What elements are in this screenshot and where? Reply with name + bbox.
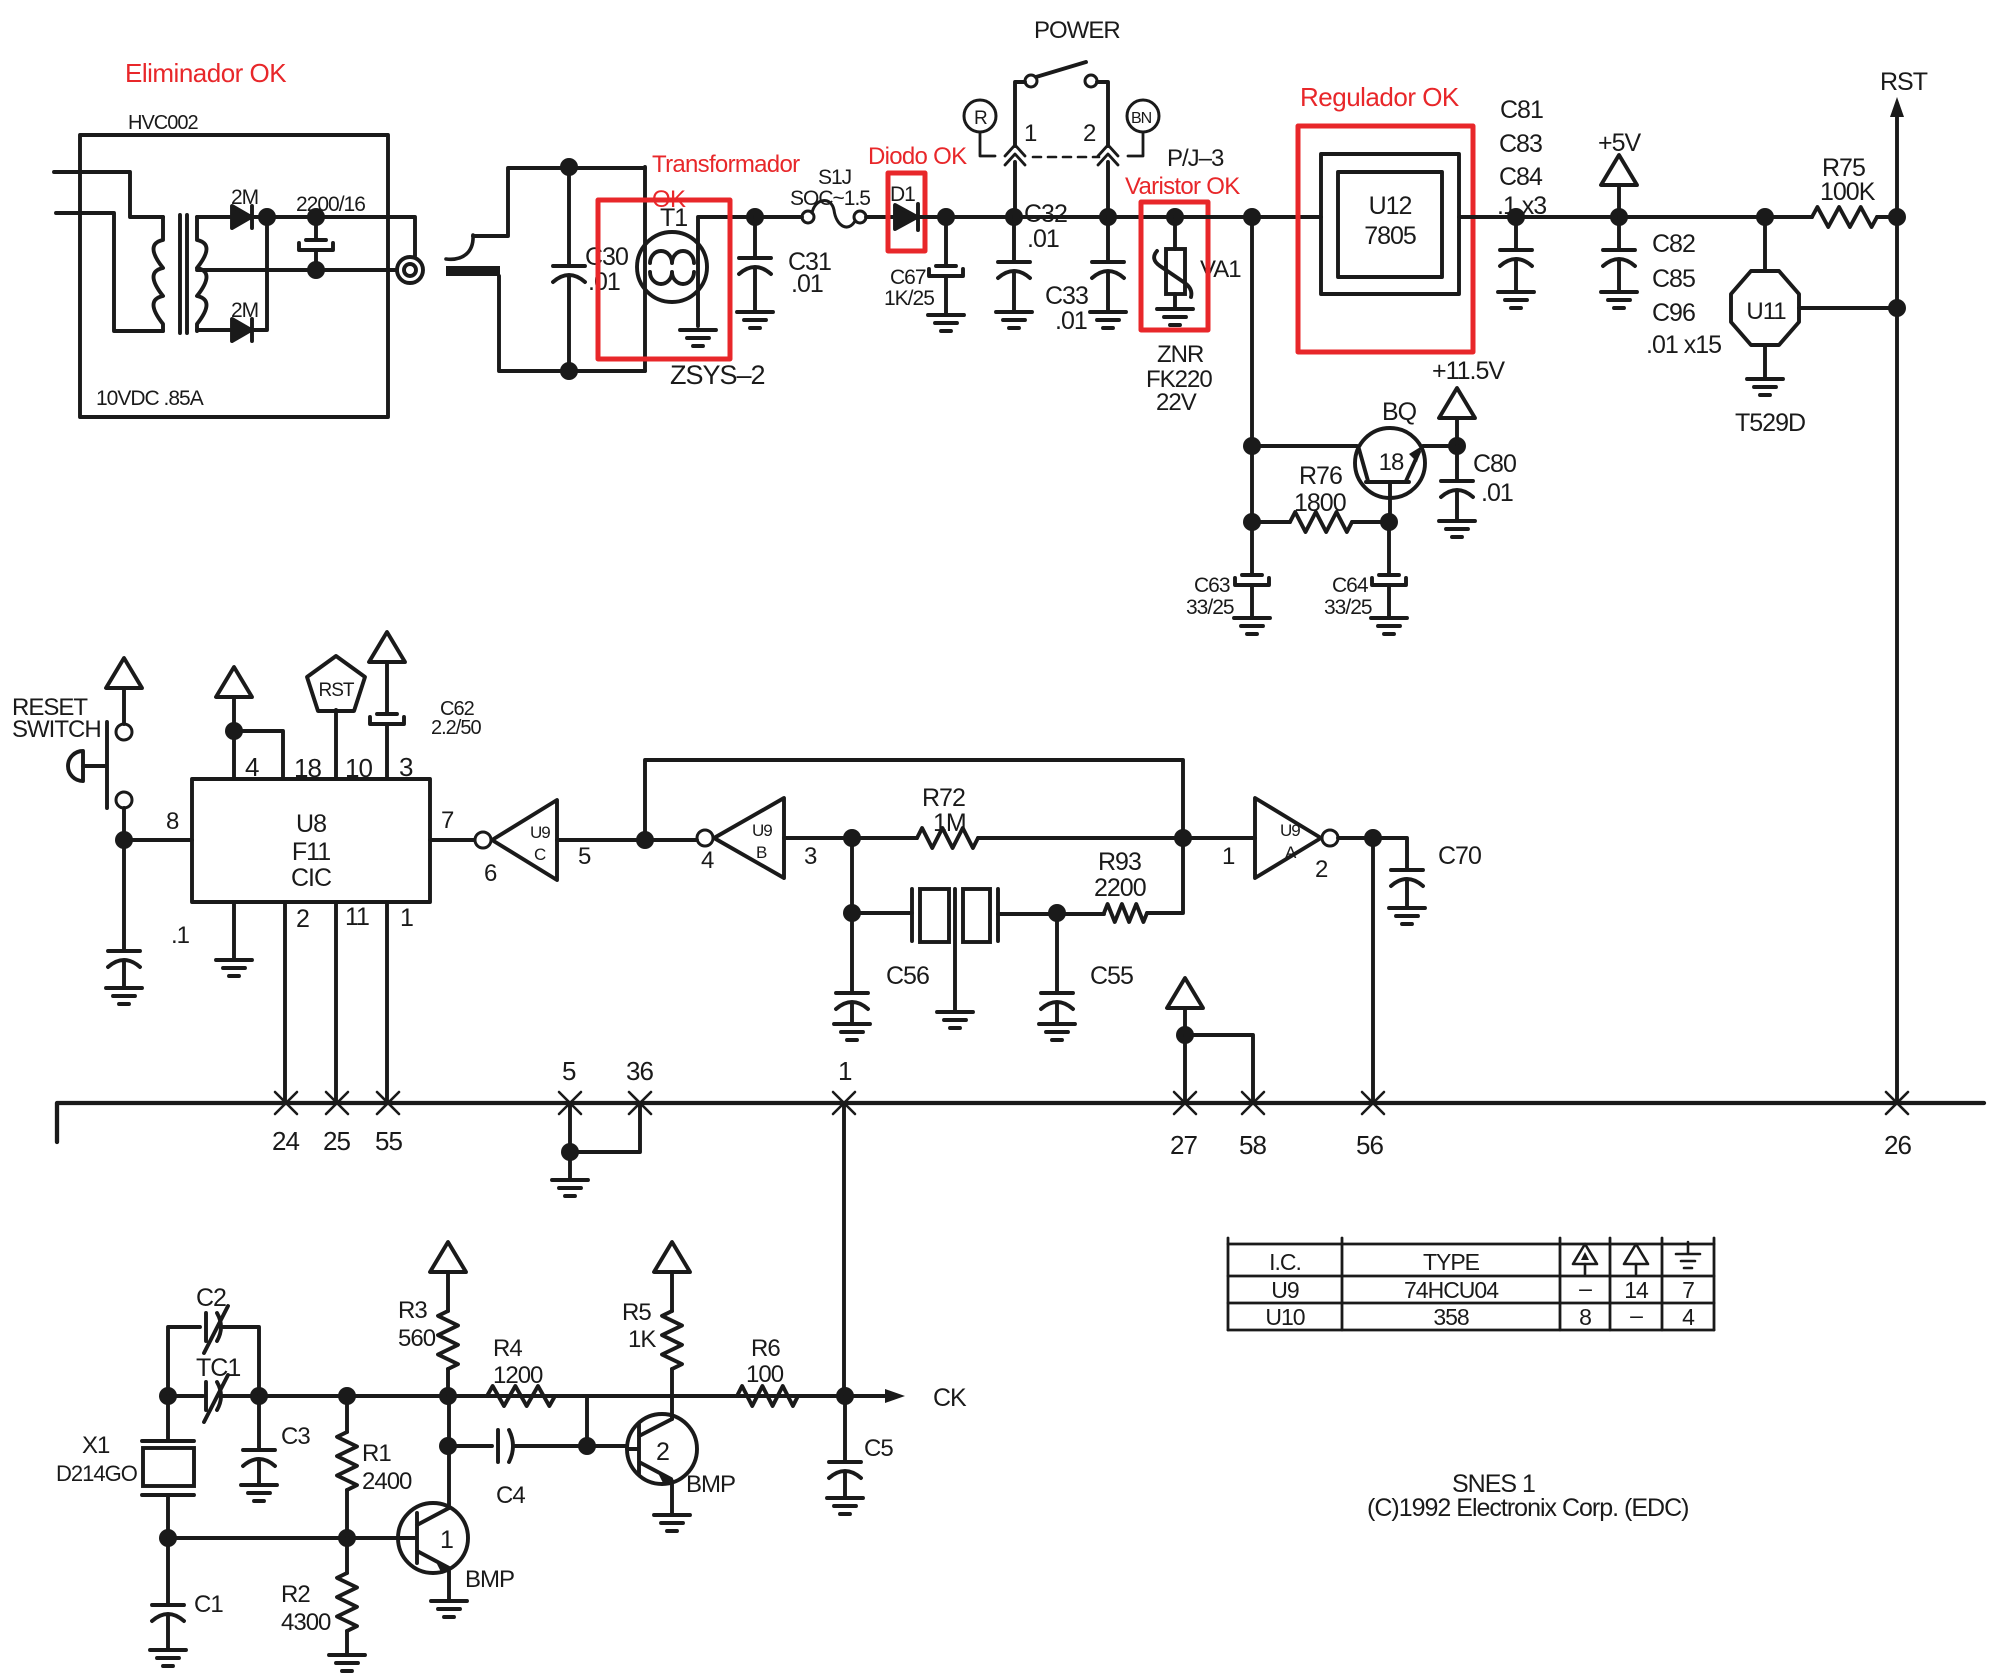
transformer T1 [637,232,707,302]
svg-text:C85: C85 [1652,265,1695,293]
capacitor C5 [829,1396,861,1498]
table header +5V symbol [1624,1244,1648,1274]
bus pin 55 mark [377,1092,399,1114]
svg-text:24: 24 [272,1126,299,1156]
wire U8 pin7 [430,838,474,842]
label C80 [1473,450,1516,478]
transistor Q2 [627,1396,697,1515]
label ZNR [1157,341,1204,368]
label pin 7 [441,807,454,834]
junction +5V [1610,208,1628,226]
label SWITCH [12,716,101,743]
svg-text:1: 1 [440,1526,453,1554]
bus pin 36 mark [629,1092,651,1114]
svg-text:OK: OK [652,186,686,213]
junction R2 top [338,1529,356,1547]
junction X1 bottom [159,1529,177,1547]
svg-text:8: 8 [166,808,179,835]
wire reset to U8 pin8 [124,808,192,840]
capacitor C67 [929,217,963,315]
svg-text:1: 1 [1024,120,1037,147]
resistor R6 [672,1386,845,1406]
wire pin4 [232,731,236,779]
svg-text:ZNR: ZNR [1157,341,1204,368]
svg-text:SWITCH: SWITCH [12,716,101,743]
label P/J-3 [1167,145,1224,172]
svg-text:U12: U12 [1369,192,1412,220]
svg-text:560: 560 [398,1325,436,1352]
ground C31 [737,312,773,328]
ground C64 [1371,618,1407,634]
switch lever [1036,62,1086,77]
bus pin 27 mark [1174,1092,1196,1114]
wire U12 out [1459,215,1619,219]
diode 2M lower [232,319,252,341]
variable capacitor C2 [168,1306,259,1396]
capacitor C82/C85/C96 [1603,217,1635,292]
label pin 4 U9B [701,847,714,874]
wire T1 primary vertical [643,167,647,371]
ground T1 [680,330,716,346]
label 27 [1170,1130,1197,1160]
label 1200 [493,1362,543,1389]
capacitor .1 at reset [108,840,140,988]
svg-text:.01: .01 [1481,479,1513,507]
table header TYPE [1423,1249,1480,1275]
red annotation "Eliminador OK" [125,58,287,88]
junction feedback left [636,831,654,849]
svg-text:358: 358 [1433,1304,1469,1330]
label 2400 [362,1468,412,1495]
label C2 [196,1284,226,1312]
resistor R72 [917,828,978,848]
inverter U9B [697,798,784,878]
svg-text:2: 2 [1315,856,1328,883]
junction crystal left [843,829,861,847]
bus pin 58 mark [1242,1092,1264,1114]
ground C70 [1389,908,1425,924]
svg-text:BN: BN [1131,110,1152,127]
wire fuse to D1 [866,215,895,219]
ground bus pins 5/36 [552,1180,588,1196]
svg-text:10VDC .85A: 10VDC .85A [96,387,204,410]
junction T1 out / C31 [746,208,764,226]
svg-text:C64: C64 [1332,574,1369,597]
wire pin2 to bus [283,902,287,1103]
label 100 [746,1361,784,1388]
wire R72 to U9A [978,836,1255,840]
wire +5V to R75 [1619,215,1812,219]
junction BQ branch [1243,208,1261,226]
svg-text:Diodo OK: Diodo OK [868,143,967,170]
capacitor C30 [553,167,585,371]
label C64 [1332,574,1369,597]
svg-text:.01 x15: .01 x15 [1646,331,1721,359]
svg-text:C67: C67 [890,266,926,289]
junction osc C [338,1387,356,1405]
junction C55 [1048,904,1066,922]
wire BQ right lead [1423,444,1457,448]
svg-text:10: 10 [345,753,372,783]
capacitor C80 [1441,446,1473,521]
bus pin 56 mark [1362,1092,1384,1114]
svg-text:56: 56 [1356,1130,1383,1160]
svg-text:C81: C81 [1500,96,1543,124]
wire C33 to VA1 [1108,215,1175,219]
table header GND symbol [1676,1242,1700,1268]
svg-text:A: A [1285,843,1297,862]
wire lower diode to junction [251,217,267,330]
wire U9B out to R72 [784,836,917,840]
label +11.5V [1432,357,1505,385]
wire secondary top lead [197,215,232,219]
svg-text:C70: C70 [1438,842,1481,870]
svg-text:I.C.: I.C. [1269,1249,1301,1275]
label X1 [82,1432,110,1459]
svg-text:C32: C32 [1024,200,1067,228]
svg-text:U8: U8 [296,810,326,838]
svg-text:R6: R6 [751,1335,780,1362]
svg-text:B: B [756,843,767,862]
svg-text:R93: R93 [1098,848,1141,876]
junction U9A out [1364,829,1382,847]
capacitor C81/C83/C84 [1500,217,1532,292]
svg-text:C83: C83 [1499,130,1542,158]
svg-text:U9: U9 [752,821,772,840]
label pin 1 bottom [400,904,413,932]
label pin 11 [345,903,369,931]
svg-text:C96: C96 [1652,299,1695,327]
svg-text:C63: C63 [1194,574,1230,597]
svg-text:.01: .01 [588,268,620,296]
svg-text:2M: 2M [231,186,258,209]
wire BQ left lead [1252,444,1357,448]
label 2M lower [231,299,258,322]
svg-text:D214GO: D214GO [56,1461,138,1486]
label 7805 [1364,222,1416,250]
label C30 [585,243,628,271]
svg-text:R: R [974,108,987,129]
label pin 2 [296,905,309,933]
label +5V [1598,129,1642,157]
svg-text:11: 11 [345,903,369,931]
label 2200 [1094,874,1146,902]
label C62 value 2.2/50 [431,717,481,739]
label 36 [626,1056,653,1086]
ground U8 [216,960,252,976]
junction C30 bottom [560,362,578,380]
svg-text:+5V: +5V [1598,129,1642,157]
capacitor C55 [1041,913,1073,1024]
table header +11.5V symbol [1573,1244,1597,1274]
svg-text:.1: .1 [171,922,190,949]
svg-text:C56: C56 [886,962,929,990]
red box Transformador [598,200,730,359]
wire U8 gnd pin [232,902,236,960]
svg-text:BMP: BMP [686,1471,735,1498]
reset switch contact top [116,724,132,740]
DC jack [397,257,423,283]
svg-text:2M: 2M [231,299,258,322]
capacitor C32 [998,217,1030,312]
svg-text:22V: 22V [1156,389,1197,416]
ground C33 [1090,312,1126,328]
svg-text:4300: 4300 [281,1609,331,1636]
wire osc main rail [168,1394,845,1398]
junction RST mid [1888,299,1906,317]
svg-text:.01: .01 [791,270,823,298]
svg-text:7805: 7805 [1364,222,1416,250]
ground C5 [827,1498,863,1514]
svg-text:HVC002: HVC002 [128,112,198,134]
label ZSYS-2 [670,360,765,390]
resistor R1 [337,1396,357,1538]
inverter U9C [475,800,557,880]
label 2M upper [231,186,258,209]
label C56 [886,962,929,990]
label FK220 [1146,366,1212,393]
wire to crystal [852,911,912,915]
ground resonator center [937,1012,973,1028]
svg-text:–: – [1630,1302,1643,1328]
svg-text:1: 1 [838,1056,852,1086]
label U8 [296,810,326,838]
label R75 [1822,154,1865,182]
junction C30 top [560,158,578,176]
label C81 [1500,96,1543,124]
svg-text:26: 26 [1884,1130,1911,1160]
capacitor C1 [152,1538,184,1650]
wire Q2 base [587,1444,627,1448]
ground VA1 [1157,309,1193,325]
wire crystal to C55 node [998,912,1104,916]
regulator U12 outer box [1321,154,1459,294]
svg-text:1M: 1M [933,809,966,837]
junction Q2 base [578,1437,596,1455]
power symbol pin27 [1167,978,1203,1035]
wire pin27 to bus [1183,1035,1187,1103]
label RESET [12,694,88,721]
power symbol R5 [654,1242,690,1272]
wire VA1 branch down to BQ [1250,217,1254,522]
ground U11 [1747,379,1783,395]
label C63 value 33/25 [1186,596,1234,619]
svg-text:C: C [534,845,546,864]
svg-text:2: 2 [656,1438,669,1466]
resistor R2 [337,1538,357,1655]
label 26 [1884,1130,1911,1160]
ground C1 [150,1650,186,1666]
label BMP Q2 [686,1471,735,1498]
wire R76 right [1352,520,1389,524]
svg-text:3: 3 [399,752,413,782]
wire D1 to C67 junction [917,215,1014,219]
label C32 [1024,200,1067,228]
label T1 [660,204,687,232]
svg-text:BMP: BMP [465,1566,514,1593]
resistor R93 [1104,904,1147,922]
label 10VDC .85A [96,387,204,410]
label 1 bus [838,1056,852,1086]
wire R93 to junction [1147,838,1183,913]
label .01 x15 [1646,331,1721,359]
connector pin chevrons pole 2 [1098,145,1118,165]
label copyright [1367,1494,1689,1522]
wire pin1 to bus [385,902,389,1103]
junction R76 right [1380,513,1398,531]
svg-text:CK: CK [933,1384,967,1412]
IC U11 (octagon) [1731,217,1799,345]
svg-text:U11: U11 [1746,298,1786,325]
svg-text:R72: R72 [922,784,965,812]
svg-text:5: 5 [578,843,591,870]
bus pin 24 mark [275,1092,297,1114]
svg-text:(C)1992 Electronix Corp. (EDC): (C)1992 Electronix Corp. (EDC) [1367,1494,1689,1522]
capacitor C70 [1373,838,1423,908]
svg-text:T529D: T529D [1735,409,1805,437]
red annotation "Transformador OK" line1 [652,151,800,178]
svg-text:R3: R3 [398,1297,427,1324]
label C85 [1652,265,1695,293]
pentagon RST flag [307,656,365,711]
net RST vertical line with arrow [1890,97,1904,1103]
wire plug tip to bottom rail [499,276,645,371]
wire VA1 to BQ branch [1175,215,1321,219]
svg-text:2400: 2400 [362,1468,412,1495]
junction pin27 [1176,1026,1194,1044]
svg-text:Regulador OK: Regulador OK [1300,82,1460,112]
svg-text:POWER: POWER [1034,17,1120,44]
ground C80 [1439,521,1475,537]
junction R72 right [1174,829,1192,847]
plug tip contact (bar) [446,266,500,276]
resistor R5 [662,1272,682,1396]
svg-text:R4: R4 [493,1335,522,1362]
ground C55 [1039,1024,1075,1040]
junction C81 [1507,208,1525,226]
svg-text:BQ: BQ [1382,398,1417,426]
transformer core [180,215,187,333]
label C96 [1652,299,1695,327]
label C31 [788,248,831,276]
svg-text:CIC: CIC [291,864,332,892]
wire R75 to RST line [1877,215,1897,219]
label C84 [1499,163,1543,191]
label D214GO [56,1461,138,1486]
label pin 6 [484,860,497,887]
junction osc B [250,1387,268,1405]
svg-text:R5: R5 [622,1299,651,1326]
svg-text:+11.5V: +11.5V [1432,357,1505,385]
svg-text:2: 2 [1083,120,1096,147]
red annotation "Varistor OK" [1125,173,1240,200]
label TC1 [196,1354,240,1382]
wire switch pole 2 [1097,82,1108,217]
inverter U9A [1255,798,1338,878]
red box Regulador [1298,126,1473,352]
wire pin11 to bus [334,902,338,1103]
indicator R lead [980,133,995,156]
wire gnd stub [568,1152,572,1180]
capacitor C33 [1092,217,1124,312]
label C70 [1438,842,1481,870]
label 1K [628,1326,656,1353]
svg-text:1K/25: 1K/25 [884,287,934,310]
transformer secondary winding [197,217,207,331]
svg-text:6: 6 [484,860,497,887]
svg-text:18: 18 [294,753,321,783]
wire U11 to RST line [1799,306,1897,310]
power symbol pin3 [369,632,405,712]
junction pin4 [225,722,243,740]
svg-text:7: 7 [1682,1277,1694,1303]
switch mechanical link (dashed) [1033,156,1099,159]
capacitor 2200/16 [299,217,333,270]
wire crystal drop [850,838,854,913]
svg-text:18: 18 [1379,449,1404,476]
label pin 1 U9A [1222,843,1235,870]
svg-text:R76: R76 [1299,462,1342,490]
bus wire (cartridge connector) [57,1103,1984,1142]
svg-text:14: 14 [1624,1277,1649,1303]
resistor R75 [1812,207,1877,227]
label C67 value 1K/25 [884,287,934,310]
junction C33 [1099,208,1117,226]
wire pin5/36 to ground [570,1103,640,1152]
ground C56 [834,1024,870,1040]
label R3 [398,1297,427,1324]
svg-text:.1 x3: .1 x3 [1497,192,1546,220]
junction osc A [159,1387,177,1405]
label C67 [890,266,926,289]
junction BQ left [1243,437,1261,455]
IC table grid [1228,1238,1714,1330]
svg-text:P/J–3: P/J–3 [1167,145,1224,172]
label 1M [933,809,966,837]
wire feedback loop top [645,760,1183,840]
ground Q2 emitter [654,1515,690,1531]
svg-text:25: 25 [323,1126,350,1156]
svg-text:5: 5 [562,1056,576,1086]
capacitor C63 [1235,522,1269,618]
label C32 value [1027,225,1059,253]
junction CK [836,1387,854,1405]
IC U8 F11 CIC box [192,779,430,902]
junction pin5 gnd [561,1143,579,1161]
svg-text:C84: C84 [1499,163,1543,191]
svg-text:TYPE: TYPE [1423,1249,1480,1275]
svg-text:–: – [1579,1275,1592,1301]
label C3 [281,1423,310,1450]
svg-text:4: 4 [1682,1304,1695,1330]
capacitor C62 [370,714,404,779]
label BMP Q1 [465,1566,514,1593]
svg-text:C30: C30 [585,243,628,271]
label 24 [272,1126,299,1156]
svg-text:C33: C33 [1045,282,1088,310]
bus pin 5 mark [559,1092,581,1114]
svg-text:1200: 1200 [493,1362,543,1389]
label pin 3 U9B [804,843,817,870]
svg-text:Varistor OK: Varistor OK [1125,173,1240,200]
label BQ [1382,398,1417,426]
table header I.C. [1269,1249,1301,1275]
label VA1 [1200,256,1241,283]
svg-text:U9: U9 [1271,1277,1299,1303]
wire secondary bottom lead [197,328,232,332]
bus pin 25 mark [326,1092,348,1114]
svg-text:RST: RST [1880,68,1928,96]
